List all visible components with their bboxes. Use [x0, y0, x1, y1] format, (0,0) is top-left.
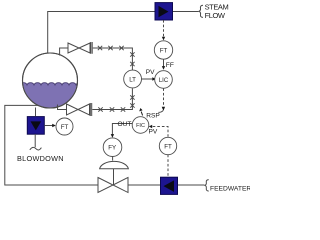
signal: FY to valve actuator: [112, 157, 114, 161]
capillary line (lower) with X marks to LT: [92, 88, 134, 112]
blowdown line from drum bottom: [35, 108, 37, 117]
level transmitter LT: [124, 70, 142, 88]
wire: impulse tap upper elbow: [60, 48, 68, 56]
signal: FIC output to FY: [112, 124, 132, 135]
svg-text:FT: FT: [61, 124, 69, 131]
wire: feedwater pipe right of flow element: [178, 184, 205, 186]
svg-text:FY: FY: [108, 145, 116, 152]
svg-text:OUT: OUT: [118, 121, 132, 128]
flow transmitter FT (feedwater): [159, 137, 176, 154]
flow element FE3 (blowdown): [27, 117, 44, 135]
wire: blowdown line below FE with break squiggle: [30, 134, 42, 150]
svg-text:PV: PV: [149, 129, 158, 136]
flow transmitter FT (steam): [154, 41, 172, 59]
capillary line (upper) with X marks to LT: [93, 46, 135, 70]
svg-text:FIC: FIC: [136, 123, 145, 129]
steam drum vessel: [20, 53, 87, 110]
signal: blowdown FE to FT: [44, 125, 52, 127]
svg-text:LIC: LIC: [159, 78, 169, 84]
signal: FT to LIC feedforward: [163, 59, 165, 66]
flow element FE2 (feedwater): [161, 177, 178, 194]
signal: LT to LIC (PV): [142, 78, 153, 80]
isolation valve V2 (lower impulse tap): [67, 103, 92, 116]
isolation valve V1 (upper impulse tap): [68, 42, 92, 54]
svg-text:FF: FF: [166, 62, 174, 69]
wire: steam outlet pipe from drum top: [48, 12, 199, 55]
wire: riser/downcomer loop on left side: [5, 105, 98, 185]
wire: impulse tap lower elbow: [58, 105, 67, 110]
RSP port arrow at FIC top: [141, 112, 142, 116]
control valve FV (feedwater) with diaphragm actuator: [98, 161, 128, 192]
wire: feedwater pipe from valve to flow element: [128, 184, 161, 186]
signal: LIC to FIC remote setpoint (dashed): [163, 88, 165, 106]
svg-text:FT: FT: [160, 47, 168, 54]
level controller LIC: [155, 71, 173, 89]
svg-text:FLOW: FLOW: [205, 11, 226, 20]
svg-text:LT: LT: [129, 76, 136, 83]
signal: feed FT to FIC (PV, dashed): [152, 127, 168, 137]
flow element FE1 (steam flow nozzle): [155, 3, 173, 20]
flow transmitter FT (blowdown): [56, 118, 73, 135]
flow controller FIC: [132, 117, 149, 134]
svg-text:RSP: RSP: [146, 112, 160, 119]
svg-text:FEEDWATER: FEEDWATER: [210, 186, 250, 193]
pipe-break squiggle (feedwater line end): [205, 180, 209, 192]
svg-text:BLOWDOWN: BLOWDOWN: [17, 154, 64, 163]
signal: feedwater FE to FT (dashed): [167, 155, 169, 177]
pipe-break squiggle (steam line end): [199, 5, 203, 17]
svg-text:PV: PV: [146, 69, 155, 76]
signal: steam FE to FT (dashed): [163, 20, 165, 38]
valve positioner FY: [103, 138, 122, 157]
svg-text:FT: FT: [164, 143, 172, 150]
